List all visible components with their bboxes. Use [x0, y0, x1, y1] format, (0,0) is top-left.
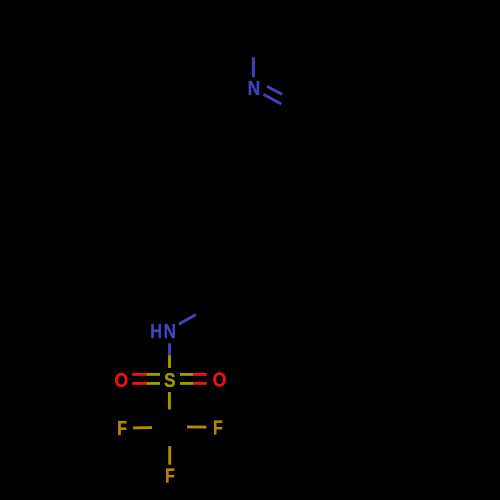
bond C-F3 (down, F-colored half) [168, 446, 171, 465]
svg-text:S: S [164, 370, 175, 392]
bond C-F1 (left, F-colored half) [133, 426, 152, 429]
svg-text:N: N [164, 321, 177, 343]
bond S1-C (down, S-colored half) [168, 392, 171, 410]
bond S1=O1 lower line O-colored half [132, 382, 146, 385]
svg-text:F: F [213, 417, 223, 439]
svg-text:F: F [165, 466, 175, 488]
svg-text:H: H [150, 321, 162, 343]
bond S1=O1 upper line O-colored half [132, 373, 146, 376]
bond N1=C2 main line (N-colored half) [263, 94, 281, 104]
bond S1=O2 lower line O-colored half [193, 382, 206, 385]
bond S1=O2 upper line O-colored half [193, 373, 206, 376]
svg-text:N: N [248, 78, 261, 100]
bond S1=O1 lower line S-colored half [147, 382, 160, 385]
bond C-F2 (right, F-colored half) [187, 425, 206, 428]
bond S1=O2 lower line S-colored half [180, 382, 193, 385]
svg-text:O: O [213, 370, 227, 392]
bond N1=C2 inner double line (N-colored half) [267, 86, 282, 94]
bond C-N1 (pyridine ring, vertical, N-colored half) [252, 57, 255, 77]
svg-text:F: F [117, 418, 127, 440]
svg-text:O: O [114, 370, 128, 392]
bond S1=O1 upper line S-colored half [147, 373, 160, 376]
bond N2-S sulfur-colored half [168, 355, 171, 368]
bond CH2-N2 (up-right from sulfonamide N, N-colored half) [179, 315, 196, 325]
bond N2-S blue half [168, 343, 171, 355]
bond S1=O2 upper line S-colored half [180, 373, 193, 376]
